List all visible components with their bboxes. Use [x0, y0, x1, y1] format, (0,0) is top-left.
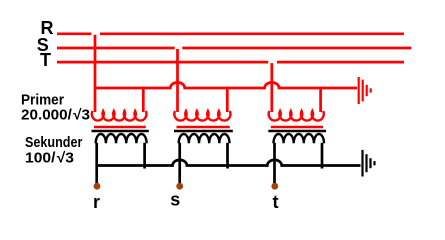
svg-text:100/ √3: 100/ √3: [25, 151, 74, 167]
svg-text:t: t: [273, 192, 279, 212]
svg-text:r: r: [93, 192, 100, 212]
svg-text:T: T: [40, 50, 51, 70]
svg-text:Primer: Primer: [21, 92, 64, 108]
svg-text:s: s: [170, 189, 180, 209]
svg-text:20.000/ √3: 20.000/ √3: [21, 107, 90, 123]
svg-text:Sekunder: Sekunder: [25, 135, 83, 151]
